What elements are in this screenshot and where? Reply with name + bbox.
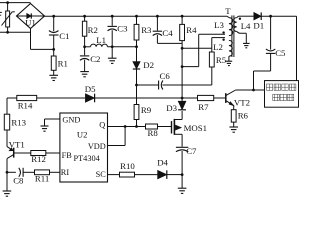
label R8 (148, 128, 159, 138)
label L3 (214, 20, 224, 30)
transistor MOS1 channel bar (173, 119, 175, 135)
svg-text:R9: R9 (141, 105, 152, 115)
wire D5 to R7 (95, 97, 198, 99)
label D4 (157, 157, 168, 167)
resistor R13 (4, 114, 9, 130)
label varistor fragment (0, 12, 2, 15)
ground L4 (243, 43, 250, 47)
label FB pin (62, 151, 73, 160)
node VDD tie junction (124, 125, 127, 128)
diode D3 (178, 101, 186, 110)
svg-text:L3: L3 (214, 20, 224, 30)
node snubber lower junction (181, 65, 184, 68)
node rail C1 junction (52, 48, 55, 51)
svg-text:R7: R7 (198, 102, 209, 112)
diode inside bridge U1 (27, 13, 32, 18)
wire R4 bottom lead (181, 41, 183, 49)
transistor VT2 collector (226, 90, 254, 96)
wire R9 top lead (136, 98, 138, 105)
resistor R14 (17, 95, 37, 100)
label C2 (90, 54, 100, 64)
node C6 junction (135, 84, 138, 87)
svg-text:L4: L4 (241, 21, 251, 31)
diode D4 (158, 170, 167, 179)
node L1 right junction (111, 45, 114, 48)
transformer winding L4 (234, 16, 239, 31)
resistor R7 (198, 95, 214, 100)
wire primary tap to L3 bottom (199, 33, 225, 35)
inductor L1 (91, 44, 108, 47)
svg-text:D4: D4 (157, 157, 168, 167)
label detection circuit line2 (273, 94, 294, 100)
wire VT2 base (214, 97, 226, 99)
resistor R12 (31, 151, 46, 156)
wire R3 to D2 (136, 47, 138, 62)
wire R4 top lead (181, 16, 183, 24)
wire Q output (108, 126, 146, 128)
wire C6 right lead (162, 84, 211, 86)
resistor R8 (146, 124, 158, 129)
label C7 (186, 146, 197, 156)
label SC pin (96, 170, 107, 179)
label VDD pin (88, 142, 106, 151)
label D5 (85, 84, 96, 94)
wire bridge bottom to rail (30, 29, 32, 50)
svg-text:VDD: VDD (88, 142, 106, 151)
diode D5 (85, 94, 94, 103)
wire C1 bottom lead (53, 35, 55, 49)
ground R1 (49, 75, 58, 80)
node R4 snubber junction (181, 47, 184, 50)
label D1 (253, 20, 264, 30)
label D3 (166, 103, 177, 113)
transformer winding L3 (227, 16, 232, 35)
label C8 (13, 176, 24, 186)
label R3 (141, 25, 152, 35)
svg-text:VT2: VT2 (234, 97, 250, 107)
wire R11 to RI pin (50, 171, 60, 173)
node output C5 junction (269, 15, 272, 18)
svg-text:C2: C2 (90, 54, 100, 64)
transformer winding L2 (229, 40, 232, 56)
svg-text:C5: C5 (275, 48, 286, 58)
svg-text:VT1: VT1 (9, 140, 25, 150)
ground L1 output node (108, 47, 117, 64)
wire AC line top (0, 2, 31, 4)
label C5 (275, 48, 286, 58)
wire VDD pin (108, 127, 126, 146)
svg-text:R6: R6 (238, 110, 249, 120)
label L2 (213, 42, 223, 52)
resistor R1 (51, 56, 56, 70)
svg-text:R10: R10 (120, 161, 135, 171)
svg-text:C7: C7 (186, 146, 197, 156)
wire FB pin (46, 152, 60, 154)
wire R2 bottom lead (84, 36, 86, 47)
label VT1 (9, 140, 25, 150)
svg-text:C8: C8 (13, 176, 24, 186)
transistor VT2 emitter (226, 101, 234, 106)
label PT4304 (74, 154, 101, 163)
svg-text:R2: R2 (88, 25, 98, 35)
wire varistor branch (7, 3, 9, 33)
svg-text:D2: D2 (143, 60, 154, 70)
wire R1 top lead (53, 49, 55, 56)
label U2 (77, 130, 88, 140)
node R3 bottom junction (135, 45, 138, 48)
transistor MOS1 gate bar (171, 121, 173, 133)
wire bridge through line (17, 15, 45, 17)
capacitor C6 (159, 81, 163, 90)
resistor R10 (120, 172, 135, 177)
svg-text:U2: U2 (77, 130, 88, 140)
bridge rectifier U1 outline (17, 4, 45, 29)
ground C2 (80, 72, 89, 77)
node bus C1 junction (52, 15, 55, 18)
svg-text:C4: C4 (162, 28, 173, 38)
node bus R2 junction (83, 15, 86, 18)
resistor R5 (209, 48, 214, 67)
label R2 (88, 25, 98, 35)
ground L2 (226, 61, 233, 65)
svg-text:PT4304: PT4304 (74, 154, 101, 163)
label L1 (96, 35, 106, 45)
svg-text:GND: GND (62, 116, 80, 125)
label R9 (141, 105, 152, 115)
resistor R6 (231, 110, 236, 122)
resistor R11 (35, 170, 50, 175)
label GND pin (62, 116, 80, 125)
capacitor C1 (49, 31, 59, 35)
label R1 (58, 59, 68, 69)
node source ground junction (181, 173, 184, 176)
svg-text:Q: Q (99, 121, 105, 130)
label R6 (238, 110, 249, 120)
wire D2 to C6 node (136, 69, 138, 85)
wire node to detect box (254, 89, 265, 91)
wire R14 to D5 (37, 97, 86, 99)
node L3 phase dot (222, 31, 224, 33)
wire C6 left lead (137, 84, 159, 86)
capacitor C5 (266, 16, 275, 71)
svg-text:U1: U1 (25, 17, 36, 27)
svg-text:R14: R14 (18, 100, 33, 110)
wire main left drop (6, 98, 8, 114)
wire L4 to D1 (238, 15, 254, 17)
wire snubber vertical (181, 48, 183, 66)
wire R5 bottom lead (211, 67, 213, 85)
label R4 (186, 25, 197, 35)
capacitor C4 (153, 16, 162, 43)
svg-text:L2: L2 (213, 42, 223, 52)
label startup current line1 (266, 84, 296, 90)
ground VT1 (3, 191, 12, 196)
label R10 (120, 161, 135, 171)
transistor VT2 base bar (225, 93, 227, 103)
label VT2 (234, 97, 250, 107)
label RI pin (61, 168, 70, 177)
transistor VT1 collector (7, 155, 13, 173)
svg-text:T: T (225, 6, 231, 16)
wire R6 bottom lead (233, 122, 235, 127)
transformer core (232, 15, 234, 57)
svg-text:R11: R11 (35, 173, 49, 183)
svg-text:D5: D5 (85, 84, 96, 94)
wire VT1 to ground (6, 172, 8, 191)
wire R3 top lead (136, 16, 138, 24)
node bus C4 junction (156, 15, 159, 18)
wire R12 to VT1 base (14, 152, 30, 154)
node AC bottom junction (6, 31, 9, 34)
wire bottom rail (31, 48, 54, 50)
label MOS1 (184, 123, 207, 133)
svg-text:D1: D1 (253, 20, 264, 30)
svg-text:R5: R5 (216, 55, 227, 65)
svg-text:R1: R1 (58, 59, 68, 69)
label Q pin (99, 121, 105, 130)
wire jog to primary tap (182, 34, 199, 66)
wire C1 top lead (53, 16, 55, 31)
label T (225, 6, 231, 16)
diode D2 (133, 62, 140, 69)
label D2 (143, 60, 154, 70)
capacitor C2 (80, 47, 89, 72)
wire D4 to source node (167, 174, 182, 176)
ground main switch (178, 175, 187, 194)
resistor R4 (180, 24, 185, 40)
ground R6 (229, 127, 238, 132)
capacitor C7 (176, 147, 188, 151)
label C1 (59, 31, 69, 41)
transistor VT1 emitter (7, 147, 13, 151)
wire R5 top to L2 top (212, 38, 225, 49)
label U1 (25, 17, 36, 27)
svg-text:D3: D3 (166, 103, 177, 113)
wire SC pin (108, 174, 120, 176)
varistor RV1 (2, 11, 15, 27)
svg-text:R4: R4 (186, 25, 197, 35)
wire snubber down to main (181, 67, 183, 98)
label R7 (198, 102, 209, 112)
op-amp U2 box (60, 113, 108, 182)
wire C8 to R11 (23, 171, 34, 173)
node bus R3 junction (135, 15, 138, 18)
wire C5 jog to VT2 node (254, 71, 271, 90)
node VT1 emitter junction (6, 171, 9, 174)
wire R1 bottom lead (53, 70, 55, 75)
label R14 (18, 100, 33, 110)
svg-text:R12: R12 (31, 154, 46, 164)
svg-text:L1: L1 (96, 35, 106, 45)
svg-text:C3: C3 (117, 23, 128, 33)
diode D1 (254, 12, 261, 20)
svg-text:C6: C6 (160, 71, 171, 81)
label R11 (35, 173, 49, 183)
transistor MOS1 substrate arrow (175, 125, 181, 130)
svg-text:C1: C1 (59, 31, 69, 41)
wire L4 bottom lead (237, 32, 247, 44)
wire R3 bottom lead (136, 40, 138, 47)
label R5 (216, 55, 227, 65)
wire C4 to snubber column (157, 42, 182, 44)
wire L1 right lead (108, 46, 137, 48)
wire D2 node to main (136, 85, 138, 98)
wire R2 top lead (84, 16, 86, 21)
wire VT2 emitter lead (233, 106, 235, 110)
svg-text:R3: R3 (141, 25, 152, 35)
label C3 (117, 23, 128, 33)
wire AC line bottom (0, 31, 31, 33)
wire D3 to MOS drain (181, 111, 183, 120)
label R12 (31, 154, 46, 164)
capacitor C3 (108, 16, 117, 47)
node L4 phase dot (239, 18, 241, 20)
wire snubber to R5 top (182, 47, 212, 49)
resistor R2 (82, 21, 86, 36)
node L1 left junction (83, 45, 86, 48)
ground U2 (41, 126, 49, 131)
resistor R3 (134, 24, 139, 40)
wire C7 bottom lead (181, 151, 183, 175)
svg-text:SC: SC (96, 170, 107, 179)
wire GND pin (45, 119, 60, 126)
transistor MOS1 source lead (174, 134, 182, 146)
wire main to D3 (181, 98, 183, 101)
svg-text:R8: R8 (148, 128, 159, 138)
wire main rail (7, 97, 17, 99)
transistor VT1 base bar (13, 148, 15, 158)
startup current detection circuit box (265, 81, 299, 108)
node L2 phase dot (222, 39, 224, 41)
wire L1 left lead (85, 46, 91, 48)
node VT2 collector junction (252, 89, 255, 92)
wire R13 to VT1 (6, 130, 8, 147)
svg-text:RI: RI (61, 168, 70, 177)
label C4 (162, 28, 173, 38)
label R13 (11, 117, 26, 127)
wire C8 left lead (7, 171, 16, 173)
label L4 (241, 21, 251, 31)
wire output right drop (296, 16, 298, 80)
transistor MOS1 drain lead (174, 119, 182, 121)
wire DC bus (45, 15, 228, 17)
svg-text:MOS1: MOS1 (184, 123, 207, 133)
node bus C3 junction (111, 15, 114, 18)
wire D1 to output (261, 15, 296, 17)
node main D3 junction (181, 97, 184, 100)
resistor R9 (134, 105, 139, 120)
node bus R4 junction (181, 15, 184, 18)
wire L2 bottom lead (228, 56, 230, 61)
node R9 tie junction (135, 125, 138, 128)
label C6 (160, 71, 171, 81)
svg-text:FB: FB (62, 151, 73, 160)
wire R9 bottom lead (136, 120, 138, 127)
wire gate lead (158, 126, 172, 128)
wire R10 to D4 (135, 174, 158, 176)
svg-text:R13: R13 (11, 117, 26, 127)
node AC top junction (6, 1, 9, 4)
capacitor C8 (19, 168, 23, 177)
